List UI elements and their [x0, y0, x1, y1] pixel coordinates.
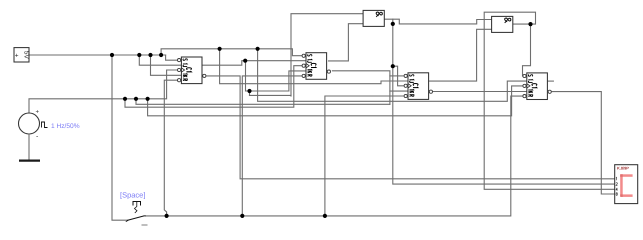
- svg-text:5V: 5V: [22, 51, 29, 60]
- svg-text:K.8/9P: K.8/9P: [617, 166, 629, 171]
- svg-text:1 Hz/50%: 1 Hz/50%: [51, 123, 80, 130]
- svg-text:[Space]: [Space]: [120, 191, 145, 200]
- svg-text:+: +: [36, 110, 40, 116]
- svg-text:+: +: [15, 52, 19, 59]
